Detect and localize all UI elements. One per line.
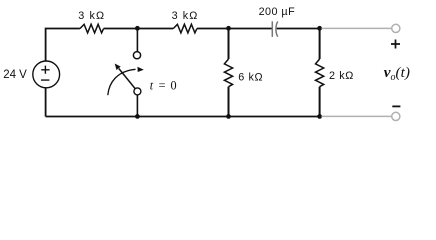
switch pivot circle — [134, 88, 141, 95]
svg-text:24 V: 24 V — [3, 69, 27, 81]
switch upper terminal stub — [136, 29, 138, 52]
capacitor C1 200 µF — [272, 21, 278, 37]
switch motion arc with arrowhead — [108, 67, 144, 95]
resistor R3 6 kΩ vertical — [224, 29, 232, 117]
voltage source V1 24 V — [33, 61, 60, 88]
resistor R2 3 kΩ — [173, 24, 197, 33]
switch blade with arrowhead — [115, 64, 136, 89]
node C junction dot top — [317, 26, 322, 31]
node A junction dot — [135, 26, 140, 31]
minus sign output — [392, 105, 400, 107]
svg-text:2 kΩ: 2 kΩ — [329, 70, 354, 82]
plus sign output — [391, 40, 400, 49]
wire top segment left: source to R1 — [46, 29, 80, 62]
wire R2 to node B — [197, 28, 272, 30]
node B junction dot bottom — [226, 114, 231, 119]
svg-text:3 kΩ: 3 kΩ — [172, 10, 199, 22]
wire bottom rail — [46, 116, 320, 118]
junction dot switch bottom — [135, 114, 140, 119]
svg-text:3 kΩ: 3 kΩ — [78, 10, 105, 22]
resistor R4 2 kΩ vertical — [316, 29, 324, 117]
svg-text:200 µF: 200 µF — [259, 6, 296, 18]
resistor R1 3 kΩ — [80, 24, 104, 33]
wire capacitor to node C — [277, 28, 320, 30]
wire gray output top — [322, 27, 392, 29]
wire R1 to node A — [104, 28, 174, 30]
wire gray output bottom — [322, 115, 392, 117]
node B junction dot top — [226, 26, 231, 31]
wire left vertical bottom — [45, 88, 47, 117]
svg-text:vo(t): vo(t) — [384, 64, 410, 83]
terminal circle output bottom — [392, 112, 400, 120]
node C junction dot bottom — [317, 114, 322, 119]
switch lower stub — [136, 95, 138, 117]
switch upper terminal circle — [133, 52, 140, 59]
terminal circle output top — [392, 24, 400, 32]
svg-text:6 kΩ: 6 kΩ — [238, 72, 263, 84]
